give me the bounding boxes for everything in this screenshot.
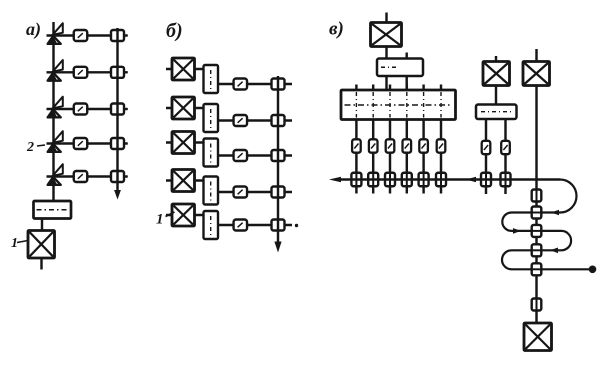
- svg-text:в): в): [329, 19, 344, 40]
- svg-text:1: 1: [156, 212, 164, 228]
- svg-text:б): б): [166, 20, 183, 42]
- svg-text:а): а): [26, 19, 41, 40]
- svg-text:2: 2: [26, 140, 34, 155]
- svg-text:1: 1: [11, 236, 18, 251]
